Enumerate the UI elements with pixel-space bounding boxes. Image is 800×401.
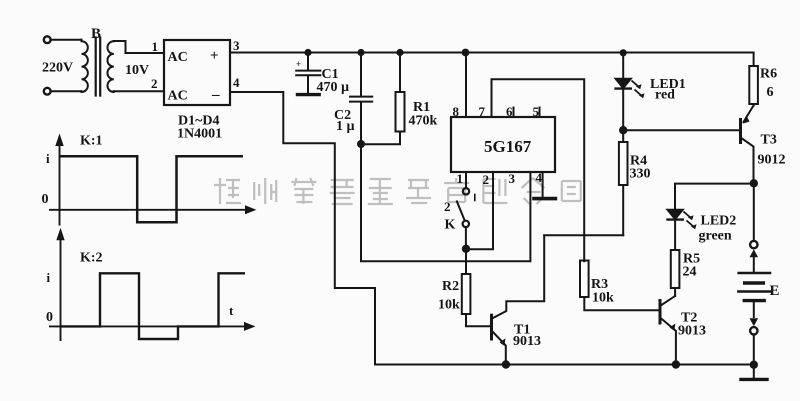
svg-text:10k: 10k <box>592 291 614 306</box>
svg-text:10k: 10k <box>438 298 460 313</box>
svg-text:9013: 9013 <box>678 324 706 339</box>
svg-text:8: 8 <box>453 104 460 119</box>
svg-text:470 µ: 470 µ <box>317 80 350 95</box>
svg-text:K:2: K:2 <box>80 251 103 266</box>
svg-text:–: – <box>211 87 220 103</box>
svg-text:10V: 10V <box>125 63 149 78</box>
svg-text:4: 4 <box>536 170 543 185</box>
svg-text:i: i <box>46 151 50 166</box>
svg-text:2: 2 <box>151 76 158 91</box>
svg-text:1N4001: 1N4001 <box>177 127 222 142</box>
svg-text:24: 24 <box>683 265 697 280</box>
svg-text:K:1: K:1 <box>80 134 103 149</box>
svg-text:3: 3 <box>233 38 240 53</box>
svg-text:9013: 9013 <box>513 334 541 349</box>
svg-text:R2: R2 <box>442 279 459 294</box>
svg-text:0: 0 <box>46 310 53 325</box>
svg-text:AC: AC <box>168 50 188 65</box>
svg-text:E: E <box>770 283 780 299</box>
svg-text:+: + <box>210 48 219 64</box>
svg-text:t: t <box>229 303 234 318</box>
svg-text:6: 6 <box>506 104 513 119</box>
svg-text:R6: R6 <box>760 67 777 82</box>
svg-text:3: 3 <box>509 171 516 186</box>
svg-text:green: green <box>699 229 732 244</box>
svg-text:2: 2 <box>444 199 451 214</box>
svg-text:1 µ: 1 µ <box>336 119 355 134</box>
svg-text:7: 7 <box>479 104 486 119</box>
svg-text:330: 330 <box>630 167 651 182</box>
svg-text:220V: 220V <box>42 61 73 76</box>
svg-text:9012: 9012 <box>758 153 786 168</box>
svg-text:1: 1 <box>457 171 464 186</box>
svg-text:B: B <box>91 26 101 42</box>
svg-text:470k: 470k <box>409 114 438 129</box>
svg-text:4: 4 <box>233 75 240 90</box>
svg-text:5G167: 5G167 <box>484 137 532 156</box>
svg-text:red: red <box>655 88 675 103</box>
svg-text:5: 5 <box>533 104 540 119</box>
svg-text:+: + <box>296 59 301 69</box>
svg-text:T3: T3 <box>761 133 777 148</box>
svg-text:2: 2 <box>483 172 490 187</box>
svg-text:K: K <box>445 218 456 233</box>
svg-text:LED2: LED2 <box>701 214 737 229</box>
svg-text:6: 6 <box>767 85 774 100</box>
svg-text:1: 1 <box>152 39 159 54</box>
svg-text:AC: AC <box>168 89 188 104</box>
svg-text:i: i <box>47 270 51 285</box>
svg-text:0: 0 <box>42 192 49 207</box>
